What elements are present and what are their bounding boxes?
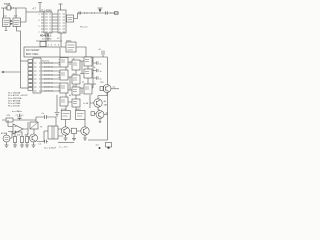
wire xyxy=(26,11,44,13)
pin stubs xyxy=(41,14,44,32)
capacitor xyxy=(55,113,60,117)
box R between xyxy=(72,128,77,133)
svg-text:2n: 2n xyxy=(100,79,102,81)
box filter xyxy=(115,12,119,15)
svg-text:4=1OO+1k: 4=1OO+1k xyxy=(44,63,53,65)
wire xyxy=(15,131,22,134)
ground xyxy=(5,142,9,147)
svg-text:4=1OO+1k: 4=1OO+1k xyxy=(44,67,53,69)
transistor Q6 xyxy=(81,127,89,135)
branch cap 2 xyxy=(93,69,98,72)
svg-text:5T4B: 5T4B xyxy=(4,2,10,6)
capacitor Ck xyxy=(37,140,48,144)
wires to rail xyxy=(92,61,93,88)
svg-text:TR1: TR1 xyxy=(100,82,104,84)
wires Q4 xyxy=(32,142,36,147)
node H xyxy=(91,13,92,14)
svg-text:1n: 1n xyxy=(100,64,102,66)
mic wires xyxy=(7,132,13,139)
node D xyxy=(99,147,101,149)
gate B4 xyxy=(72,99,80,107)
svg-text:out: out xyxy=(113,86,116,89)
mic M1 xyxy=(3,135,10,142)
wire xyxy=(45,33,47,47)
gate A1 xyxy=(60,58,68,68)
wire xyxy=(61,46,66,48)
svg-text:Cx 4R: Cx 4R xyxy=(83,103,89,105)
ground xyxy=(83,135,87,140)
capacitor C8 xyxy=(102,51,104,58)
antenna xyxy=(98,8,103,9)
wire xyxy=(94,114,107,115)
cluster wires xyxy=(68,62,72,102)
svg-text:4k: 4k xyxy=(69,95,71,97)
svg-text:1 2 3 4: 1 2 3 4 xyxy=(48,45,60,47)
transistor Q1 xyxy=(103,85,111,93)
svg-text:1k: 1k xyxy=(94,67,96,69)
transistor Q4 xyxy=(30,134,38,142)
wire vertical mid xyxy=(56,95,58,112)
svg-text:1Ok: 1Ok xyxy=(17,134,21,136)
svg-text:4=1OO+1k: 4=1OO+1k xyxy=(44,87,53,89)
gate B2 xyxy=(72,75,80,84)
transformer T2 xyxy=(48,126,58,139)
branch cap 4 xyxy=(93,83,96,85)
crystal X1 xyxy=(7,6,11,10)
node F xyxy=(84,13,85,14)
ladder wires xyxy=(52,14,58,32)
pin box column xyxy=(28,60,33,91)
wire xyxy=(28,117,56,126)
ground xyxy=(72,134,76,141)
capacitor C xyxy=(106,11,108,15)
svg-text:4=1OO+1k: 4=1OO+1k xyxy=(44,91,53,93)
branch cap 1 xyxy=(93,61,98,64)
svg-text:5: 5 xyxy=(39,26,40,28)
box at Q3 xyxy=(91,112,94,116)
ground xyxy=(25,145,29,147)
svg-text:1n: 1n xyxy=(100,71,102,73)
svg-text:m = 4MHz: m = 4MHz xyxy=(12,111,22,113)
svg-text:ECM: ECM xyxy=(1,133,6,135)
capacitor C6 xyxy=(79,12,81,15)
resistor R3 xyxy=(20,137,23,143)
wire bus xyxy=(60,56,90,58)
svg-text:m --- nnn: m --- nnn xyxy=(59,147,68,149)
wires R4 xyxy=(27,129,28,145)
wire xyxy=(60,33,62,47)
gate C2 xyxy=(84,69,92,78)
wire xyxy=(21,87,29,89)
gate A2 xyxy=(60,70,68,80)
wire bus xyxy=(36,40,62,42)
node B xyxy=(110,13,111,14)
IC U2 xyxy=(13,18,21,27)
IC U7 xyxy=(33,58,41,93)
box display driver xyxy=(24,47,60,57)
wire cluster to D1 xyxy=(66,106,76,112)
box T1 xyxy=(30,122,38,129)
wire rail right xyxy=(92,57,94,88)
ground xyxy=(13,145,17,147)
box U6 regulator xyxy=(66,42,76,52)
capacitor C2 xyxy=(18,114,22,121)
node I xyxy=(94,13,95,14)
IC U3 xyxy=(44,12,52,33)
IC U1 xyxy=(3,18,11,27)
svg-text:BCD 7-SEG: BCD 7-SEG xyxy=(26,54,39,56)
box U5 xyxy=(67,15,74,22)
coupling diodes xyxy=(11,20,13,25)
svg-text:S6 = 4O6OB: S6 = 4O6OB xyxy=(8,106,20,108)
wire xyxy=(5,27,8,31)
svg-text:2k: 2k xyxy=(82,82,84,84)
svg-text:1: 1 xyxy=(39,14,40,16)
wire rail far right xyxy=(107,57,109,140)
wire bottom right xyxy=(88,139,108,141)
svg-text:4=1OO+1k: 4=1OO+1k xyxy=(44,79,53,81)
node E xyxy=(107,147,109,149)
pin wires with labels xyxy=(41,63,60,93)
gate C3 xyxy=(84,84,92,94)
op-amp U8 xyxy=(13,124,23,134)
IC U4 xyxy=(58,10,66,33)
svg-text:4=1OO+1k: 4=1OO+1k xyxy=(44,75,53,77)
ground xyxy=(64,135,68,140)
svg-text:4=1OO+1k: 4=1OO+1k xyxy=(44,83,53,85)
box at Q1 xyxy=(100,87,104,91)
wire xyxy=(76,47,86,57)
transistor Q3 xyxy=(96,111,104,119)
wire to antenna line xyxy=(74,13,120,19)
svg-text:IC5 74LS247: IC5 74LS247 xyxy=(26,50,40,52)
branch cap 3 xyxy=(93,76,98,79)
wire xyxy=(47,33,49,41)
resistor R1 xyxy=(6,118,13,122)
wire xyxy=(89,95,91,108)
capacitor Cx xyxy=(45,115,47,119)
svg-text:3: 3 xyxy=(39,20,40,22)
transistor Q2 xyxy=(94,99,102,107)
wire top right xyxy=(90,56,108,58)
gate A4 xyxy=(60,97,68,106)
wire stub xyxy=(38,3,42,13)
wire xyxy=(15,8,17,18)
transistor Q5 xyxy=(61,127,69,135)
pin ticks A xyxy=(59,60,61,91)
terminal xyxy=(2,71,4,73)
ground xyxy=(20,145,24,147)
wires bottom mid xyxy=(66,120,86,132)
gate B1 xyxy=(72,60,80,70)
wire rail left xyxy=(17,27,21,89)
wire branch xyxy=(3,71,21,73)
resistor R4 xyxy=(26,137,29,143)
op-amp wires xyxy=(8,120,28,132)
node C xyxy=(113,13,114,14)
svg-text:4=1OO+1k: 4=1OO+1k xyxy=(44,71,53,73)
wires Q2 xyxy=(90,93,107,111)
node G xyxy=(87,13,88,14)
wire xyxy=(33,129,35,134)
wire xyxy=(3,8,5,18)
node A xyxy=(12,7,15,10)
wire xyxy=(1,7,26,9)
wires Q3 xyxy=(99,119,102,123)
svg-text:1O.7 MHz: 1O.7 MHz xyxy=(42,39,51,41)
svg-text:Ck = 3-45 pF: Ck = 3-45 pF xyxy=(44,147,57,149)
gate C1 xyxy=(84,57,92,66)
resistor R2 xyxy=(13,137,16,143)
wire xyxy=(2,119,28,121)
svg-text:Puu cm: Puu cm xyxy=(80,27,88,29)
svg-text:S3 = 2N2222A: S3 = 2N2222A xyxy=(8,97,22,100)
wire bottom bus xyxy=(58,142,74,144)
wire stub xyxy=(59,4,63,10)
wire xyxy=(111,88,119,90)
box D2 xyxy=(76,111,86,120)
gate A3 xyxy=(60,83,68,93)
wire xyxy=(21,8,27,22)
wire xyxy=(21,60,29,62)
gate B3 xyxy=(72,87,80,95)
box mixer xyxy=(40,42,46,47)
box bottom right xyxy=(106,143,112,148)
box D1 xyxy=(61,111,70,120)
